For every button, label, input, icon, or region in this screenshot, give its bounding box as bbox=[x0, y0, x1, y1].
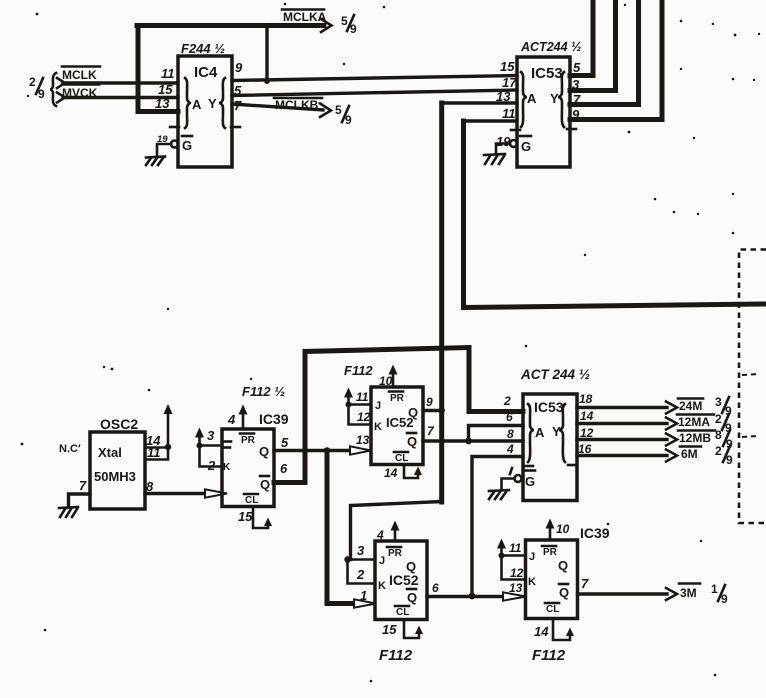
wire IC4 pin 7 output MCLKB with arrow bbox=[232, 104, 331, 118]
IC39b CL label (overline) bbox=[545, 603, 559, 615]
svg-text:IC53: IC53 bbox=[534, 399, 564, 415]
IC52a PR label (overline) bbox=[389, 392, 405, 405]
svg-text:G: G bbox=[182, 138, 192, 153]
oscillator OSC2 box bbox=[90, 416, 145, 509]
IC53b enable pin 1 tick bbox=[510, 468, 512, 474]
svg-text:12MB: 12MB bbox=[679, 431, 711, 445]
wire 24M down to bottom IC52 clock pin 1 bbox=[327, 451, 356, 604]
svg-text:A: A bbox=[527, 91, 537, 106]
IC53b inner rail tick left bbox=[524, 465, 533, 468]
svg-text:CL: CL bbox=[396, 607, 409, 618]
junction dot IC52b J (12M feed) bbox=[344, 556, 350, 562]
svg-text:4: 4 bbox=[376, 528, 384, 542]
wire 12M net: IC52 Q pin 9 riser V1 up to IC53a pin 13, down to bottom IC52 J bbox=[351, 103, 518, 560]
svg-text:14: 14 bbox=[534, 624, 549, 639]
clock arrowhead into IC39 bbox=[205, 489, 227, 497]
svg-text:J: J bbox=[375, 400, 381, 412]
svg-text:6: 6 bbox=[280, 461, 288, 476]
IC52b CL label (overline) bbox=[395, 606, 409, 618]
Vcc pull-up arrow (IC39a preset) bbox=[239, 405, 248, 430]
svg-text:CL: CL bbox=[546, 604, 559, 615]
IC39a PR label (overline) bbox=[240, 434, 256, 447]
svg-text:G: G bbox=[521, 139, 531, 154]
IC39b PR label (overline) bbox=[542, 546, 558, 558]
svg-text:11: 11 bbox=[509, 541, 522, 555]
svg-text:7: 7 bbox=[79, 478, 87, 493]
flip-flop U-IC52a (F112) box top middle bbox=[344, 363, 423, 465]
svg-text:15: 15 bbox=[238, 509, 253, 524]
svg-text:10: 10 bbox=[556, 522, 570, 536]
svg-text:2: 2 bbox=[356, 567, 365, 582]
svg-text:9: 9 bbox=[235, 60, 243, 75]
svg-text:5: 5 bbox=[573, 60, 581, 75]
svg-text:15: 15 bbox=[382, 622, 397, 637]
wire IC53a pin 7 output riser to top edge bbox=[570, 0, 639, 105]
Vcc pull-up arrow (IC39b preset) bbox=[546, 519, 555, 541]
wire IC53b G-bar to ground bbox=[502, 479, 515, 491]
buffer U-IC4 (F244 1/2) box bbox=[178, 41, 232, 167]
wire feedback loop left of IC4 (MCLKA down to pin 13) bbox=[138, 26, 178, 112]
Vcc pull-up arrow (IC39b J/K) bbox=[497, 539, 506, 556]
svg-text:G: G bbox=[525, 474, 535, 489]
svg-text:24M: 24M bbox=[679, 399, 702, 413]
Vcc pull-up arrow (OSC2) bbox=[164, 404, 173, 447]
svg-text:IC52: IC52 bbox=[389, 572, 419, 588]
svg-text:Q: Q bbox=[408, 405, 418, 420]
net label MCLKA (overline) bbox=[282, 10, 327, 25]
svg-text:2: 2 bbox=[29, 75, 36, 89]
svg-text:6: 6 bbox=[506, 410, 513, 424]
wire MCLKA horizontal with arrow to 5/9 bbox=[137, 19, 332, 32]
svg-text:K: K bbox=[378, 580, 386, 592]
svg-text:Q: Q bbox=[406, 559, 416, 574]
net label MCLK (overline) bbox=[62, 67, 100, 83]
Vcc pull-up arrow (IC52a J/K) bbox=[344, 388, 353, 405]
buffer U-IC53b (ACT244 1/2) box lower bbox=[520, 367, 590, 501]
svg-text:OSC2: OSC2 bbox=[100, 416, 138, 432]
svg-text:11: 11 bbox=[502, 106, 516, 121]
svg-text:Q: Q bbox=[407, 590, 417, 605]
wire IC53b pin 18 output with arrow (24M) bbox=[577, 402, 677, 414]
svg-text:N.C′: N.C′ bbox=[59, 443, 81, 455]
svg-text:F112: F112 bbox=[532, 647, 566, 664]
wire 12M-bar hook to lower IC53 pin 6 bbox=[469, 426, 524, 442]
svg-text:A: A bbox=[192, 97, 202, 112]
IC39a J input dashes bbox=[224, 442, 231, 448]
svg-text:3: 3 bbox=[207, 428, 215, 443]
wire IC39a Q pin 5 to IC52 clock pin 13 (24M) bbox=[274, 449, 352, 452]
IC52a Q-bar label (overline) bbox=[407, 433, 417, 449]
wire OSC2 pins 14/11 tied to Vcc bbox=[145, 448, 168, 460]
svg-text:11: 11 bbox=[161, 66, 175, 81]
IC52a CL label (overline) bbox=[394, 452, 408, 464]
svg-text:12MA: 12MA bbox=[678, 415, 710, 429]
IC53a G-bar label (overline) bbox=[520, 136, 531, 154]
junction dot 6M node bbox=[469, 593, 476, 600]
svg-text:Q: Q bbox=[558, 558, 568, 573]
IC52b Q-bar label (overline) bbox=[407, 589, 417, 605]
svg-text:MCLKA: MCLKA bbox=[283, 10, 327, 24]
ground (IC53b enable) bbox=[489, 490, 509, 499]
svg-text:2: 2 bbox=[503, 394, 511, 408]
IC39a CL label (overline) bbox=[244, 494, 258, 506]
wire IC52a J/K tied together bbox=[349, 405, 372, 425]
junction dot on V1 bbox=[439, 407, 445, 413]
net label 3M (overline) bbox=[679, 584, 700, 601]
wire IC39b J/K tied together bbox=[502, 556, 526, 580]
wire IC53a pin 9 output riser to top edge bbox=[570, 0, 662, 120]
junction dot OSC2 Vcc bbox=[165, 444, 171, 450]
svg-text:Q: Q bbox=[559, 585, 569, 600]
svg-text:Q: Q bbox=[260, 477, 270, 492]
junction dot IC39a J bbox=[197, 443, 203, 449]
svg-text:17: 17 bbox=[502, 75, 517, 90]
flip-flop U-IC39b (F112) box bottom right bbox=[526, 525, 610, 619]
svg-text:J: J bbox=[379, 555, 385, 567]
IC4 G-bar label (overline) bbox=[182, 136, 192, 153]
clock arrowhead into IC52 bbox=[350, 446, 371, 454]
wire IC53b pin 12 output with arrow (12MB) bbox=[577, 434, 677, 446]
Vcc pull-up arrow (IC52a preset) bbox=[389, 365, 398, 388]
svg-text:1: 1 bbox=[360, 588, 367, 603]
svg-text:Q: Q bbox=[259, 444, 269, 459]
svg-text:IC39: IC39 bbox=[580, 525, 610, 541]
junction dot on MCLKA line bbox=[264, 23, 269, 28]
svg-text:IC53: IC53 bbox=[531, 65, 563, 82]
junction dot on pin 9 wire bbox=[264, 78, 270, 84]
page ref 2/9 bbox=[715, 412, 732, 435]
svg-text:12: 12 bbox=[357, 410, 371, 424]
clear tie-high hook (IC52a) bbox=[404, 465, 422, 479]
IC39b Q-bar label (overline) bbox=[559, 584, 569, 600]
net label 24M (overline) bbox=[678, 399, 703, 414]
svg-text:Q: Q bbox=[407, 434, 417, 449]
svg-text:Y: Y bbox=[552, 424, 561, 439]
flip-flop U-IC39a (F112 1/2) box bbox=[222, 384, 289, 507]
page ref 5/9 (MCLKA) bbox=[341, 14, 357, 36]
svg-text:5: 5 bbox=[281, 435, 289, 450]
svg-text:8: 8 bbox=[715, 428, 722, 442]
svg-text:4: 4 bbox=[227, 412, 236, 427]
svg-text:1: 1 bbox=[711, 582, 718, 596]
IC4 inner rail tick right bbox=[231, 126, 240, 129]
svg-text:7: 7 bbox=[427, 424, 435, 438]
IC53a inner rail tick right bbox=[567, 128, 576, 131]
net label 6M (overline) bbox=[680, 447, 701, 462]
svg-text:18: 18 bbox=[579, 392, 593, 406]
net label 12MB (overline) bbox=[678, 431, 715, 446]
svg-text:CL: CL bbox=[395, 453, 408, 464]
net label MVCK (overline) bbox=[62, 85, 99, 101]
svg-text:13: 13 bbox=[356, 433, 370, 447]
svg-text:IC39: IC39 bbox=[259, 411, 289, 427]
svg-text:PR: PR bbox=[388, 548, 403, 559]
wire IC53a pin 5 output riser to top edge bbox=[570, 0, 593, 76]
svg-text:9: 9 bbox=[426, 395, 433, 409]
page ref 1/9 (3M) bbox=[711, 582, 728, 606]
wire 6M net: lower IC53 pin 4 down to bottom IC52 Q-bar line bbox=[472, 457, 523, 596]
svg-text:12: 12 bbox=[510, 566, 524, 580]
Vcc pull-up arrow (IC52b preset) bbox=[391, 521, 400, 542]
svg-text:Xtal: Xtal bbox=[98, 445, 122, 460]
svg-text:3M: 3M bbox=[680, 586, 697, 600]
IC53a G-bar enable bubble bbox=[510, 140, 517, 147]
ground (IC53a enable) bbox=[484, 154, 505, 164]
svg-text:15: 15 bbox=[500, 59, 515, 74]
wire IC52a Q-bar pin 7 to lower IC53 pin 8 (12M-bar) bbox=[423, 439, 523, 442]
clock arrowhead into bottom IC52 bbox=[354, 599, 376, 607]
svg-text:A: A bbox=[535, 425, 545, 440]
ground (IC4 enable) bbox=[146, 157, 165, 166]
svg-text:PR: PR bbox=[543, 547, 558, 558]
Vcc pull-up arrow (IC39a J/K) bbox=[195, 428, 204, 446]
svg-text:Y: Y bbox=[208, 96, 217, 111]
svg-text:F112 ½: F112 ½ bbox=[242, 384, 285, 399]
clear tie-high hook (IC39b) bbox=[553, 619, 574, 641]
off-page connector dashed box right edge bbox=[739, 250, 766, 524]
svg-text:F244 ½: F244 ½ bbox=[181, 41, 225, 56]
junction dot IC39b J bbox=[499, 553, 505, 559]
clear tie-high hook (IC52b) bbox=[404, 620, 423, 639]
svg-text:5: 5 bbox=[341, 14, 348, 28]
wire IC53b pin 16 output with arrow (6M) bbox=[577, 450, 677, 462]
IC53b G-bar label (overline) bbox=[524, 471, 535, 490]
wire IC53a G-bar to ground bbox=[496, 144, 510, 155]
svg-text:K: K bbox=[223, 462, 231, 473]
svg-text:8: 8 bbox=[507, 427, 514, 441]
wire IC52b J/K tied together bbox=[348, 560, 376, 584]
svg-text:2: 2 bbox=[715, 412, 722, 426]
wire MCLK input to IC4 pin 11 bbox=[57, 78, 178, 88]
svg-text:10: 10 bbox=[379, 374, 393, 388]
IC4 inner rail tick left bbox=[170, 126, 179, 129]
svg-text:14: 14 bbox=[580, 409, 594, 423]
IC53a inner rail tick left bbox=[511, 129, 520, 132]
junction dot 12M-bar node bbox=[465, 438, 472, 445]
svg-text:4: 4 bbox=[506, 442, 514, 456]
wire IC4 pin 9 output to IC53 pin 15 bbox=[232, 76, 517, 81]
svg-text:PR: PR bbox=[390, 393, 405, 404]
clear tie-high hook (IC39a) bbox=[253, 507, 272, 529]
IC4 G-bar enable bubble bbox=[171, 141, 178, 148]
wire IC53a pin 3 output riser to top edge bbox=[570, 0, 616, 91]
svg-text:ACT 244 ½: ACT 244 ½ bbox=[520, 367, 590, 382]
svg-text:CL: CL bbox=[245, 495, 258, 506]
svg-text:3: 3 bbox=[715, 395, 722, 409]
svg-text:PR: PR bbox=[241, 435, 256, 446]
svg-text:5: 5 bbox=[335, 103, 342, 117]
svg-text:6: 6 bbox=[432, 581, 439, 595]
wire riser from IC4 pin 9 up to MCLKA line bbox=[265, 26, 268, 81]
wire IC39a J/K tied together bbox=[200, 446, 223, 467]
wire IC52a Q pin 9 into 12M riser V1 bbox=[423, 409, 442, 412]
buffer U-IC53a (ACT244 1/2) box top right bbox=[517, 40, 581, 167]
svg-text:50MH3: 50MH3 bbox=[94, 469, 136, 484]
page ref 2/9 (6M) bbox=[715, 444, 733, 467]
svg-text:IC4: IC4 bbox=[194, 64, 218, 81]
svg-text:MCLKB: MCLKB bbox=[275, 98, 319, 112]
svg-text:3: 3 bbox=[357, 543, 365, 558]
svg-text:13: 13 bbox=[509, 581, 523, 595]
svg-text:11: 11 bbox=[356, 390, 369, 404]
svg-text:7: 7 bbox=[581, 576, 589, 591]
IC53b inner rail tick right bbox=[568, 464, 577, 467]
svg-text:K: K bbox=[374, 421, 382, 433]
IC53b G-bar enable bubble bbox=[515, 475, 522, 482]
svg-text:F112: F112 bbox=[379, 647, 413, 664]
wire IC39a Q-bar pin 6 up and over to lower IC53 pin 2 (24M-bar) bbox=[274, 348, 523, 483]
clock arrowhead into bottom IC39 bbox=[503, 592, 526, 600]
page ref 3/9 bbox=[715, 395, 732, 418]
page ref 8/9 bbox=[715, 428, 733, 451]
net label 12MA (overline) bbox=[677, 415, 714, 430]
junction dot 24M node bbox=[324, 447, 330, 453]
svg-text:Y: Y bbox=[550, 91, 559, 106]
net label MCLKB (overline) bbox=[274, 98, 322, 112]
svg-text:J: J bbox=[529, 551, 535, 563]
wire OSC2 pin 7 to ground bbox=[69, 494, 91, 507]
svg-text:8: 8 bbox=[146, 479, 154, 494]
IC52b PR label (overline) bbox=[387, 547, 403, 559]
svg-text:14: 14 bbox=[384, 466, 398, 480]
svg-text:MCLK: MCLK bbox=[62, 68, 97, 82]
wire IC4 G-bar to ground bbox=[157, 144, 171, 157]
svg-text:F112: F112 bbox=[344, 363, 373, 378]
wire IC39b Q-bar pin 7 output with arrow (3M) bbox=[578, 588, 678, 600]
wire IC52b Q-bar pin 6 to bottom IC39 clock pin 13 (6M) bbox=[427, 595, 505, 598]
flip-flop U-IC52b (F112) box bottom bbox=[375, 541, 427, 620]
wire MVCK input to IC4 pin 15 bbox=[57, 93, 178, 103]
svg-text:2: 2 bbox=[715, 444, 722, 458]
page ref 5/9 (MCLKB) bbox=[335, 103, 352, 127]
ground (OSC2) bbox=[59, 507, 78, 517]
wire IC53a pin 11 input from off-page net V2 bbox=[464, 121, 766, 308]
wire IC53b pin 14 output with arrow (12MA) bbox=[577, 418, 677, 430]
svg-text:6M: 6M bbox=[681, 447, 698, 461]
svg-text:K: K bbox=[528, 576, 536, 588]
wire OSC2 output to IC39 clock bbox=[145, 492, 207, 495]
junction dot IC52a J bbox=[346, 402, 352, 408]
svg-text:19: 19 bbox=[496, 134, 511, 149]
wire IC4 pin 5 output to IC53 pin 17 bbox=[232, 90, 517, 96]
input page ref 2/9 with brace bbox=[29, 73, 56, 106]
svg-text:ACT244 ½: ACT244 ½ bbox=[520, 40, 581, 54]
IC39a Q-bar label (overline) bbox=[260, 476, 270, 492]
